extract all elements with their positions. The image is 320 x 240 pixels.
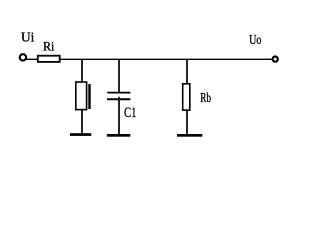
svg-text:Ui: Ui <box>21 31 34 46</box>
resistor Ra (shunt box) <box>76 82 87 110</box>
ground (branch 1) <box>70 133 91 136</box>
svg-text:C1: C1 <box>124 105 137 121</box>
svg-text:Uo: Uo <box>249 33 261 48</box>
svg-text:Ri: Ri <box>43 39 55 54</box>
svg-text:Rb: Rb <box>200 91 211 106</box>
bar beside resistor Ra <box>88 84 90 109</box>
ground (branch 3) <box>177 134 202 137</box>
resistor Rb (shunt box) <box>183 84 190 110</box>
capacitor C1 top plate <box>107 92 130 94</box>
wire: branch 3 top lead <box>186 59 188 84</box>
wire: branch 2 top lead <box>118 59 120 93</box>
wire: branch 1 bottom lead <box>81 110 83 134</box>
wire: input terminal to Ri <box>26 58 38 60</box>
wire: main bus Ri to output terminal <box>60 58 272 60</box>
wire: branch 1 top lead <box>81 59 83 82</box>
terminal input (open circle) <box>20 54 26 60</box>
capacitor C1 bottom plate <box>107 98 130 100</box>
ground (branch 2) <box>107 134 131 137</box>
wire: branch 3 bottom lead <box>186 110 188 135</box>
terminal output (open circle) <box>273 57 278 62</box>
wire: branch 2 bottom lead (tick above plate) <box>118 97 120 135</box>
resistor Ri (series box) <box>38 56 60 62</box>
